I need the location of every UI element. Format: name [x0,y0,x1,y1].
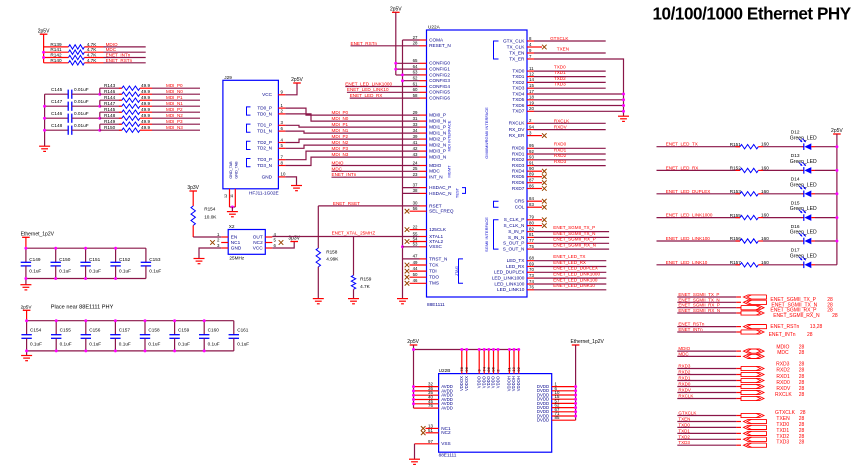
svg-text:83: 83 [529,202,534,207]
svg-text:MDI0_P: MDI0_P [429,113,446,118]
svg-text:ENET_XTAL_25MHZ: ENET_XTAL_25MHZ [332,230,376,235]
svg-text:LED_TX: LED_TX [507,258,526,263]
svg-text:HSDAC_P: HSDAC_P [429,185,451,190]
svg-text:MDI_P1: MDI_P1 [166,95,183,100]
svg-text:R143: R143 [104,83,116,88]
svg-text:GND_TAB: GND_TAB [235,161,239,179]
svg-text:84: 84 [529,196,534,201]
svg-text:MDI_P3: MDI_P3 [332,146,349,151]
svg-text:46: 46 [413,278,418,283]
svg-text:ENET_SGMII_TX_P: ENET_SGMII_TX_P [678,292,719,297]
svg-text:Green_LED: Green_LED [790,230,817,236]
svg-text:C159: C159 [178,328,190,333]
svg-text:ENET_LED_LINK100: ENET_LED_LINK100 [666,236,711,241]
svg-text:RXDV: RXDV [678,388,691,393]
svg-text:SGMII INTERFACE: SGMII INTERFACE [484,217,489,252]
svg-text:LED_LINK10: LED_LINK10 [497,287,525,292]
svg-text:28: 28 [413,41,418,46]
svg-text:MDI_N1: MDI_N1 [166,101,183,106]
svg-text:ENET_SGMII_TX_P: ENET_SGMII_TX_P [553,225,595,230]
svg-text:C149: C149 [29,257,41,262]
svg-text:TRST_N: TRST_N [429,256,447,261]
svg-text:TXD6: TXD6 [512,103,524,108]
svg-text:RXD3: RXD3 [554,159,567,164]
svg-text:4.7K: 4.7K [87,53,98,58]
svg-text:R139: R139 [50,42,62,47]
svg-text:RXD1: RXD1 [776,374,790,380]
svg-text:2p5V: 2p5V [38,28,50,34]
svg-text:51: 51 [428,428,433,433]
svg-text:Green_LED: Green_LED [790,253,817,259]
svg-text:C145: C145 [51,87,63,92]
svg-text:77: 77 [529,238,534,243]
svg-text:S_OUT_N: S_OUT_N [503,247,525,252]
svg-text:0.1uF: 0.1uF [30,341,42,346]
svg-text:80: 80 [529,220,534,225]
svg-text:31: 31 [413,116,418,121]
svg-text:U22B: U22B [439,368,451,373]
svg-text:RXDV: RXDV [776,386,791,392]
svg-text:GND_TAB: GND_TAB [229,161,233,179]
svg-text:49.9: 49.9 [141,83,151,88]
svg-text:COL: COL [515,205,525,210]
svg-text:ENET_LED_LINK1000: ENET_LED_LINK1000 [553,272,600,277]
svg-text:ENET_INTn: ENET_INTn [332,172,357,177]
svg-text:79: 79 [529,215,534,220]
svg-text:25MHz: 25MHz [229,256,245,261]
svg-text:28: 28 [799,368,805,374]
svg-text:U22A: U22A [428,24,441,29]
svg-text:0.1uF: 0.1uF [29,269,41,274]
svg-text:ENET_SGMII_RX_P: ENET_SGMII_RX_P [678,303,720,308]
svg-text:0.01uF: 0.01uF [74,123,89,128]
svg-text:49.9: 49.9 [141,89,151,94]
svg-text:ENET_RSTn: ENET_RSTn [678,322,705,327]
svg-text:S_IN_N: S_IN_N [508,235,524,240]
svg-text:INT_N: INT_N [429,175,443,180]
svg-text:R154: R154 [204,206,216,211]
svg-text:RXD3: RXD3 [678,364,691,369]
svg-text:95: 95 [529,143,534,148]
svg-text:GND: GND [262,174,273,179]
svg-text:R149: R149 [104,119,116,124]
svg-text:TD1_P: TD1_P [257,123,272,128]
svg-text:RXCLK: RXCLK [775,392,792,398]
svg-text:VSSC: VSSC [429,244,442,249]
svg-text:ENET_LED_LINK100: ENET_LED_LINK100 [553,277,598,282]
svg-text:28: 28 [799,374,805,380]
svg-text:C147: C147 [51,99,63,104]
svg-text:VDDOX: VDDOX [464,376,469,391]
svg-text:C152: C152 [119,257,131,262]
svg-text:0.1uF: 0.1uF [59,269,71,274]
svg-text:CONFIG3: CONFIG3 [429,78,450,83]
svg-text:MDI_N3: MDI_N3 [166,125,183,130]
svg-text:74: 74 [529,279,534,284]
svg-text:GND: GND [231,245,242,250]
svg-text:C154: C154 [30,328,42,333]
svg-text:CONFIG1: CONFIG1 [429,67,450,72]
svg-text:Place near 88E1111 PHY: Place near 88E1111 PHY [51,305,114,311]
svg-text:COMA: COMA [429,37,444,42]
svg-text:RXCLK: RXCLK [554,118,570,123]
svg-text:TX_EN: TX_EN [509,50,524,55]
svg-text:49.9: 49.9 [141,119,151,124]
svg-text:13,28: 13,28 [810,324,823,330]
svg-text:TXD2: TXD2 [678,434,690,439]
svg-text:RXCLK: RXCLK [678,394,693,399]
svg-text:TXD0: TXD0 [554,65,566,70]
svg-text:MDC: MDC [332,166,343,171]
svg-text:ENET_LED_LINK1000: ENET_LED_LINK1000 [345,81,392,86]
svg-text:11: 11 [230,194,234,198]
svg-text:MGMT: MGMT [447,165,452,178]
svg-text:Green_LED: Green_LED [790,159,817,165]
svg-text:MDI3_N: MDI3_N [429,155,446,160]
svg-text:15: 15 [529,83,534,88]
svg-text:2p5V: 2p5V [831,128,843,134]
svg-text:TXEN: TXEN [678,417,690,422]
svg-text:AVDD: AVDD [441,406,453,411]
svg-text:CONFIG0: CONFIG0 [429,61,450,66]
svg-text:4.7K: 4.7K [87,47,98,52]
svg-text:TD3_N: TD3_N [257,163,272,168]
svg-text:54: 54 [413,236,418,241]
svg-text:28: 28 [799,392,805,398]
svg-text:R142: R142 [50,53,62,58]
svg-text:RXD2: RXD2 [512,157,525,162]
svg-text:0.1uF: 0.1uF [148,341,160,346]
svg-text:VCC: VCC [262,92,273,97]
svg-text:96: 96 [464,366,469,371]
svg-text:49.9: 49.9 [141,113,151,118]
svg-text:Ethernet_1p2V: Ethernet_1p2V [571,339,605,345]
svg-text:RXD2: RXD2 [776,368,790,374]
svg-text:TXD3: TXD3 [776,440,789,446]
svg-text:LED_LINK1000: LED_LINK1000 [492,276,525,281]
svg-text:S_CLK_P: S_CLK_P [504,217,525,222]
svg-text:TD1_N: TD1_N [257,129,272,134]
svg-text:44: 44 [413,266,418,271]
svg-text:53: 53 [413,242,418,247]
svg-text:33: 33 [413,122,418,127]
svg-text:XTAL2: XTAL2 [429,239,443,244]
svg-text:MDC: MDC [678,351,689,356]
svg-text:94: 94 [529,124,534,129]
svg-text:160: 160 [761,213,769,218]
svg-text:RXD6: RXD6 [512,180,525,185]
svg-text:GTXCLK: GTXCLK [678,411,696,416]
svg-text:49.9: 49.9 [141,95,151,100]
svg-text:ENET_RSTn: ENET_RSTn [106,58,133,63]
svg-text:2p5V: 2p5V [291,77,303,83]
svg-text:ENET_LED_RX: ENET_LED_RX [553,260,586,265]
svg-text:LED_LINK100: LED_LINK100 [494,281,524,286]
svg-text:2p5V: 2p5V [390,7,402,13]
svg-text:NC1: NC1 [231,240,241,245]
svg-text:0.01uF: 0.01uF [74,87,89,92]
svg-text:88E1111: 88E1111 [427,302,445,307]
svg-text:C151: C151 [89,257,101,262]
svg-text:24: 24 [413,160,418,165]
svg-text:0.1uF: 0.1uF [178,341,190,346]
svg-text:VDDO: VDDO [495,375,500,388]
svg-text:MDI1_P: MDI1_P [429,125,446,130]
svg-text:C155: C155 [60,328,72,333]
svg-text:27: 27 [413,35,418,40]
svg-text:49.9: 49.9 [141,125,151,130]
svg-text:28: 28 [832,313,838,319]
svg-text:RXD4: RXD4 [512,169,525,174]
svg-text:0.01uF: 0.01uF [74,99,89,104]
svg-text:2p5V: 2p5V [407,339,419,345]
svg-text:125CLK: 125CLK [429,227,447,232]
svg-text:MDI1_N: MDI1_N [429,131,446,136]
svg-text:2p5V: 2p5V [21,304,33,309]
svg-text:R144: R144 [104,95,116,100]
svg-text:TXD3: TXD3 [512,86,524,91]
svg-text:MDI_P2: MDI_P2 [332,134,349,139]
svg-text:RX_DV: RX_DV [509,127,526,132]
svg-text:R158: R158 [326,249,338,254]
svg-text:28: 28 [799,440,805,446]
svg-text:63: 63 [413,70,418,75]
svg-text:TD3_P: TD3_P [257,157,272,162]
svg-text:87: 87 [529,178,534,183]
svg-text:4.7K: 4.7K [87,58,98,63]
svg-text:TD0_P: TD0_P [257,106,272,111]
svg-text:TD0_N: TD0_N [257,111,272,116]
svg-text:11: 11 [529,66,534,71]
svg-text:85: 85 [555,415,560,420]
svg-text:ENET_SGMII_RX_N: ENET_SGMII_RX_N [678,308,720,313]
svg-text:C153: C153 [149,257,161,262]
svg-text:ENET_SGMII_RX_N: ENET_SGMII_RX_N [553,243,596,248]
svg-text:30: 30 [413,201,418,206]
svg-text:C158: C158 [148,328,160,333]
svg-text:RSET: RSET [429,203,442,208]
svg-text:MDIO: MDIO [678,346,690,351]
svg-text:EN: EN [231,234,238,239]
svg-text:RXD0: RXD0 [554,142,567,147]
svg-text:65: 65 [413,58,418,63]
svg-text:160: 160 [761,189,769,194]
svg-text:MDI_N2: MDI_N2 [166,113,183,118]
svg-text:62: 62 [413,76,418,81]
svg-text:TMS: TMS [429,281,439,286]
svg-text:GTXCLK: GTXCLK [550,36,569,41]
svg-text:RXDV: RXDV [554,124,568,129]
svg-text:MDIO: MDIO [429,163,442,168]
svg-text:0.1uF: 0.1uF [119,341,131,346]
svg-text:TEST: TEST [455,187,460,198]
svg-text:RX_ER: RX_ER [509,133,525,138]
svg-text:HSDAC_N: HSDAC_N [429,191,451,196]
svg-text:29: 29 [413,110,418,115]
svg-text:0.1uF: 0.1uF [119,269,131,274]
svg-text:TXD0: TXD0 [512,69,524,74]
svg-text:C161: C161 [237,328,249,333]
svg-text:MDI_N3: MDI_N3 [332,152,349,157]
svg-text:19: 19 [529,100,534,105]
svg-text:MDI_P1: MDI_P1 [332,122,349,127]
svg-text:Green_LED: Green_LED [790,182,817,188]
svg-text:RXCLK: RXCLK [509,121,526,126]
svg-text:C148: C148 [51,123,63,128]
svg-text:42: 42 [413,146,418,151]
svg-text:CRS: CRS [514,199,524,204]
svg-text:LED_DUPLEX: LED_DUPLEX [494,270,525,275]
svg-text:X2: X2 [229,224,235,229]
svg-text:86: 86 [529,183,534,188]
svg-text:43: 43 [413,152,418,157]
svg-text:TXD1: TXD1 [554,70,566,75]
svg-text:49: 49 [413,260,418,265]
svg-text:TXD5: TXD5 [512,97,524,102]
svg-text:81: 81 [529,232,534,237]
svg-text:73: 73 [529,273,534,278]
svg-text:TXD3: TXD3 [678,440,690,445]
svg-text:CONFIG6: CONFIG6 [429,96,450,101]
svg-text:22: 22 [413,224,418,229]
svg-text:39: 39 [413,134,418,139]
svg-text:C157: C157 [119,328,131,333]
svg-text:MDIO: MDIO [106,42,118,47]
svg-text:RXD0: RXD0 [678,382,691,387]
svg-text:ENET_LED_RX: ENET_LED_RX [350,93,383,98]
svg-text:0.1uF: 0.1uF [89,341,101,346]
svg-text:R140: R140 [50,58,62,63]
svg-text:RESET_N: RESET_N [429,43,451,48]
svg-text:ENET_LED_LINK10: ENET_LED_LINK10 [553,283,595,288]
svg-text:C146: C146 [51,111,63,116]
svg-text:R146: R146 [104,89,116,94]
svg-text:LED_RX: LED_RX [506,264,525,269]
svg-text:97: 97 [428,439,433,444]
svg-text:0.01uF: 0.01uF [74,111,89,116]
svg-text:MDI_N0: MDI_N0 [332,116,349,121]
svg-text:MDI_N0: MDI_N0 [166,89,183,94]
svg-text:TXD1: TXD1 [512,74,524,79]
svg-text:RXD1: RXD1 [678,376,691,381]
svg-text:CONFIG4: CONFIG4 [429,84,450,89]
svg-text:49.9: 49.9 [141,107,151,112]
svg-text:R148: R148 [104,113,116,118]
svg-text:C156: C156 [89,328,101,333]
svg-text:56: 56 [413,206,418,211]
svg-text:0.1uF: 0.1uF [237,341,249,346]
svg-text:MDC: MDC [429,169,440,174]
svg-text:ENET_INTn: ENET_INTn [106,53,131,58]
svg-text:10/100/1000 Ethernet PHY: 10/100/1000 Ethernet PHY [653,4,852,23]
svg-text:ENET_SGMII_RX_P: ENET_SGMII_RX_P [553,237,595,242]
svg-text:ENET_LED_RX: ENET_LED_RX [666,165,699,170]
svg-text:TXD2: TXD2 [554,76,566,81]
svg-text:12: 12 [529,71,534,76]
svg-text:0.1uF: 0.1uF [208,341,220,346]
svg-text:3p3V: 3p3V [187,185,199,191]
svg-text:160: 160 [761,260,769,265]
svg-text:10.0K: 10.0K [204,215,217,220]
svg-text:ENET_LED_TX: ENET_LED_TX [553,254,585,259]
svg-text:RXD5: RXD5 [512,174,525,179]
svg-text:MDC: MDC [777,350,789,356]
svg-text:ENET_RSET: ENET_RSET [333,201,360,206]
svg-text:MDI_P0: MDI_P0 [166,83,183,88]
svg-text:34: 34 [413,128,418,133]
svg-text:R159: R159 [360,277,372,282]
svg-text:10: 10 [281,172,286,177]
svg-text:HFJ11-1G02E: HFJ11-1G02E [249,190,279,195]
svg-text:Ethernet_1p2V: Ethernet_1p2V [21,231,55,237]
svg-text:88E1111: 88E1111 [439,453,457,458]
svg-text:41: 41 [413,140,418,145]
svg-text:0.1uF: 0.1uF [149,269,161,274]
svg-text:TXD4: TXD4 [512,91,524,96]
svg-text:91: 91 [529,160,534,165]
svg-text:70: 70 [529,267,534,272]
svg-text:68: 68 [529,256,534,261]
svg-text:82: 82 [529,226,534,231]
svg-text:0.1uF: 0.1uF [60,341,72,346]
svg-text:MDI_P0: MDI_P0 [332,110,349,115]
svg-text:RXD2: RXD2 [554,153,567,158]
svg-text:28: 28 [799,350,805,356]
svg-text:38: 38 [413,188,418,193]
svg-text:S_IN_P: S_IN_P [508,229,524,234]
svg-text:MDI3_P: MDI3_P [429,149,446,154]
svg-text:ENET_INTn: ENET_INTn [769,332,796,338]
svg-text:GTX_CLK: GTX_CLK [503,38,525,43]
svg-text:76: 76 [428,403,433,408]
svg-text:R145: R145 [104,107,116,112]
svg-text:4.7K: 4.7K [360,284,371,289]
svg-text:ENET_LED_DUPLEX: ENET_LED_DUPLEX [666,189,711,194]
svg-text:TDI: TDI [429,269,437,274]
svg-text:MDI_N1: MDI_N1 [332,128,349,133]
svg-text:92: 92 [529,149,534,154]
svg-text:ENET_SGMII_TX_N: ENET_SGMII_TX_N [553,231,595,236]
svg-text:50: 50 [413,272,418,277]
svg-text:CONFIG5: CONFIG5 [429,90,450,95]
svg-text:RXD7: RXD7 [512,186,525,191]
svg-text:12: 12 [224,194,228,198]
svg-text:TXD7: TXD7 [512,109,524,114]
svg-text:MDI INTERFACE: MDI INTERFACE [447,120,452,151]
svg-text:47: 47 [413,254,418,259]
svg-text:R150: R150 [104,125,116,130]
svg-text:RXD1: RXD1 [554,147,567,152]
svg-text:TX_ER: TX_ER [509,56,525,61]
svg-text:TDO: TDO [429,275,439,280]
svg-text:TCK: TCK [429,262,439,267]
svg-text:20: 20 [529,106,534,111]
svg-text:C150: C150 [59,257,71,262]
svg-text:25: 25 [413,166,418,171]
svg-text:93: 93 [529,155,534,160]
svg-text:89: 89 [529,172,534,177]
svg-text:0.1uF: 0.1uF [89,269,101,274]
svg-text:VCC: VCC [253,245,264,250]
svg-text:DVDD: DVDD [537,418,549,423]
svg-text:ENET_SGMII_RX_N: ENET_SGMII_RX_N [773,313,820,319]
svg-text:R141: R141 [50,47,62,52]
svg-text:ENET_RSTn: ENET_RSTn [770,324,799,330]
svg-text:RXD2: RXD2 [678,370,691,375]
svg-text:C160: C160 [208,328,220,333]
svg-text:MDI_P2: MDI_P2 [166,107,183,112]
svg-text:GMII/MII/RGMII INTERFACE: GMII/MII/RGMII INTERFACE [484,107,489,159]
